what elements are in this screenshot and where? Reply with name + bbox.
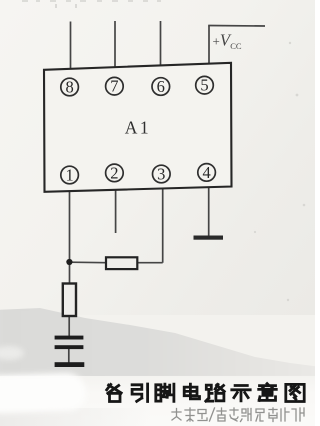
ground (below capacitor C1) bbox=[55, 362, 85, 367]
capacitor C1 top plate bbox=[55, 336, 84, 340]
svg-text:+VCC: +VCC bbox=[213, 31, 242, 51]
svg-text:5: 5 bbox=[200, 76, 208, 95]
svg-text:2: 2 bbox=[110, 163, 118, 182]
watermark text: 头条号/老马识途单片机 (drawn strokes) bbox=[172, 408, 304, 422]
wire capacitor C1 to ground bbox=[68, 348, 70, 363]
wire pin 7 (top lead) bbox=[114, 21, 116, 69]
wire pin 5 to +Vcc (vertical) bbox=[208, 26, 210, 67]
pin 3 bbox=[153, 165, 171, 183]
wire resistor R2 to capacitor C1 bbox=[68, 316, 70, 336]
wire junction to resistor R1 bbox=[70, 261, 107, 264]
wire +Vcc rail (horizontal) bbox=[208, 25, 265, 28]
resistor R1 (horizontal, between node and pin 3) bbox=[106, 257, 137, 269]
wire pin 2 (bottom lead, open) bbox=[115, 190, 117, 233]
svg-text:3: 3 bbox=[157, 165, 165, 184]
capacitor C1 bottom plate bbox=[55, 345, 84, 349]
pin 7 bbox=[106, 77, 124, 95]
wire pin 6 (top lead) bbox=[160, 21, 162, 68]
pin 4 bbox=[198, 164, 216, 182]
IC A1 body bbox=[44, 63, 232, 192]
node A junction dot bbox=[66, 259, 72, 265]
pin 2 bbox=[106, 164, 124, 182]
svg-text:7: 7 bbox=[110, 77, 118, 96]
svg-text:4: 4 bbox=[202, 163, 210, 182]
pin 6 bbox=[152, 78, 170, 96]
svg-text:1: 1 bbox=[65, 166, 73, 185]
resistor R2 (vertical, below junction) bbox=[63, 284, 76, 317]
wire pin 4 (bottom lead) bbox=[208, 188, 210, 237]
wire pin 1 (bottom lead) bbox=[69, 191, 71, 284]
svg-text:6: 6 bbox=[157, 77, 165, 96]
wire pin 3 (bottom lead) bbox=[162, 189, 164, 263]
pin 5 bbox=[196, 76, 214, 94]
svg-text:8: 8 bbox=[65, 78, 73, 97]
caption text: 各引脚电路示意图 (drawn strokes) bbox=[107, 384, 305, 402]
wire pin 3 to resistor R1 bbox=[137, 262, 162, 264]
pin 1 bbox=[61, 166, 79, 184]
wire pin 8 (top lead) bbox=[70, 22, 72, 71]
pin 8 bbox=[61, 78, 79, 96]
ground (pin 4) bbox=[194, 236, 224, 240]
svg-text:A1: A1 bbox=[125, 118, 151, 138]
